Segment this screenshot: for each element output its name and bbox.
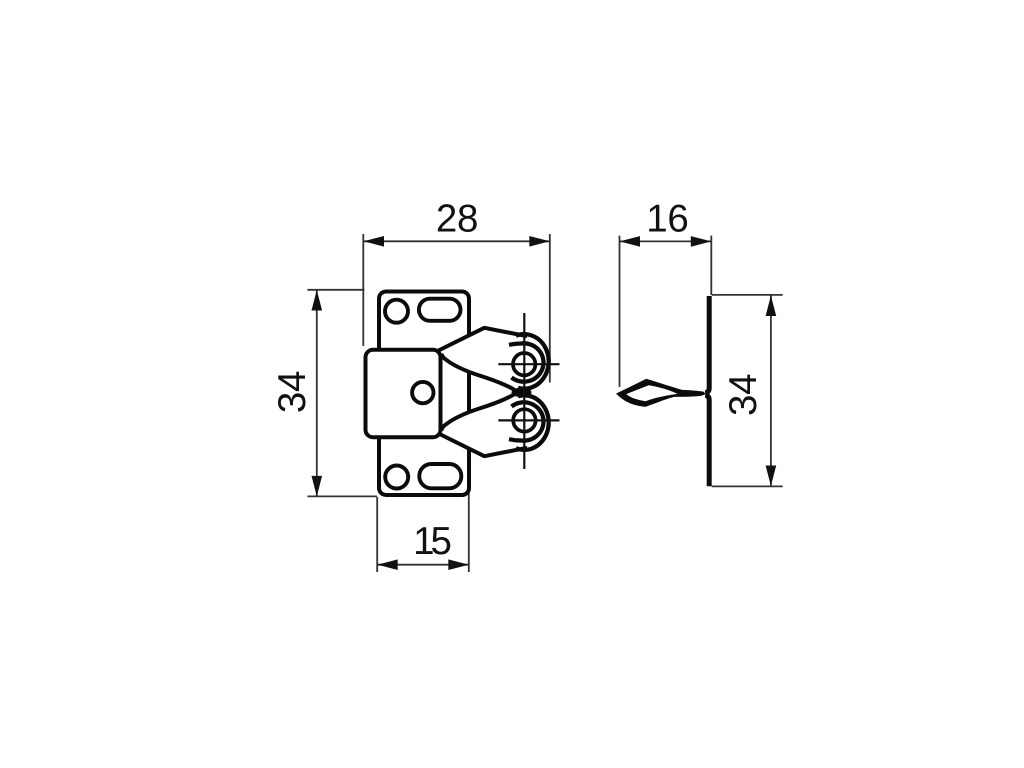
svg-text:34: 34: [722, 374, 765, 416]
svg-text:15: 15: [413, 520, 450, 563]
svg-text:34: 34: [271, 371, 314, 413]
svg-text:16: 16: [646, 197, 688, 240]
svg-text:28: 28: [436, 197, 478, 240]
